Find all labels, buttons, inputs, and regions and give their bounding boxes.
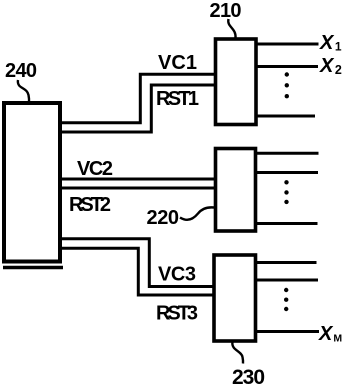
block 240 doubled bottom edge — [3, 266, 63, 270]
output line XM from 230 — [256, 330, 320, 333]
output line X2 from 210 — [256, 65, 318, 68]
svg-text:220: 220 — [147, 207, 180, 229]
output line 3 from 220 — [256, 222, 318, 225]
svg-text:RST3: RST3 — [156, 303, 198, 325]
ellipsis dots after 230 — [284, 288, 288, 292]
output line 1 from 220 — [256, 152, 319, 155]
wire RST2 (240 to 220) — [60, 187, 216, 190]
wire VC3 (240 to 230) — [60, 239, 216, 287]
svg-text:VC1: VC1 — [158, 52, 197, 74]
output line 1 from 230 — [256, 261, 317, 264]
svg-text:RST2: RST2 — [69, 194, 111, 216]
leader for 240 — [18, 80, 29, 103]
wire VC2 (240 to 220) — [60, 178, 216, 181]
leader for 230 — [232, 342, 243, 364]
wire RST1 (240 to 210) — [60, 85, 216, 132]
output line 2 from 220 — [256, 171, 319, 174]
svg-text:210: 210 — [210, 0, 242, 22]
wire VC1 (240 to 210) — [60, 74, 216, 123]
block 240 (controller rectangle) — [4, 103, 60, 262]
block 220 (middle driver) — [216, 149, 256, 232]
wire RST3 (240 to 230) — [60, 248, 216, 295]
svg-text:230: 230 — [232, 366, 265, 387]
block 230 (bottom driver) — [214, 255, 256, 341]
ellipsis dots after 220 — [284, 180, 288, 184]
output line 2 from 230 — [256, 279, 319, 282]
leader for 220 — [180, 207, 214, 219]
ellipsis dots after 210 — [285, 72, 289, 76]
output line 3 from 210 — [256, 115, 315, 118]
block 210 (top driver) — [216, 39, 257, 125]
svg-text:240: 240 — [5, 60, 37, 82]
leader for 210 — [228, 19, 235, 38]
svg-text:VC3: VC3 — [158, 264, 196, 286]
output line X1 from 210 — [256, 43, 319, 46]
svg-text:RST1: RST1 — [156, 88, 199, 110]
svg-text:VC2: VC2 — [77, 158, 113, 180]
